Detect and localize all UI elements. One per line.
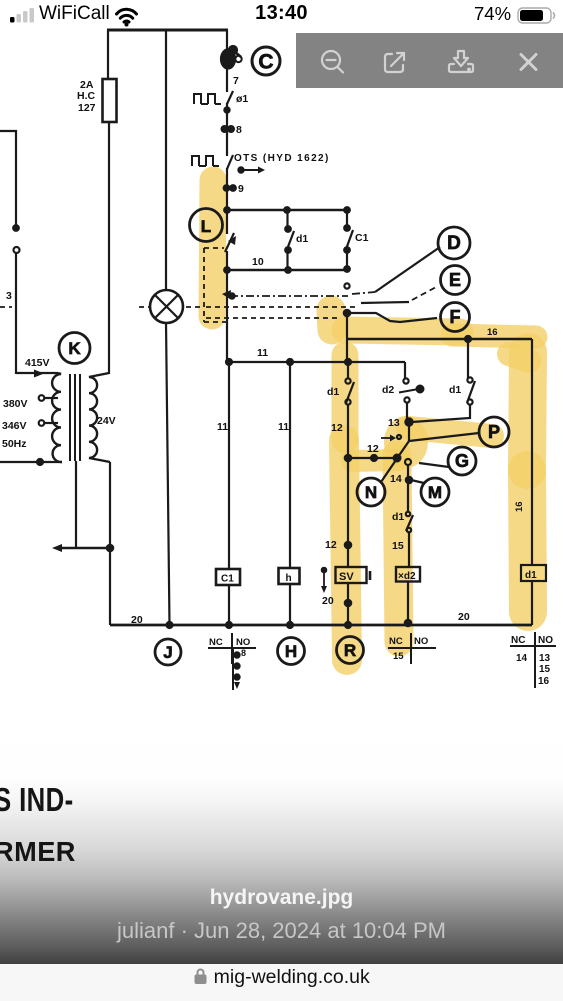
svg-text:NC: NC (389, 636, 403, 647)
svg-text:D: D (447, 233, 461, 254)
svg-text:20: 20 (322, 595, 334, 607)
svg-text:ø1: ø1 (236, 93, 248, 105)
svg-text:8: 8 (236, 124, 242, 136)
svg-text:8: 8 (241, 648, 246, 658)
svg-text:G: G (455, 451, 469, 471)
svg-text:F: F (450, 307, 461, 327)
svg-text:P: P (488, 422, 500, 442)
svg-text:d1: d1 (392, 511, 404, 523)
svg-text:H: H (285, 642, 297, 661)
svg-text:C1: C1 (221, 574, 234, 585)
svg-text:50Hz: 50Hz (2, 438, 27, 450)
svg-text:3: 3 (6, 290, 12, 302)
svg-text:12: 12 (331, 422, 343, 434)
svg-text:H.C: H.C (77, 90, 96, 102)
svg-text:15: 15 (392, 540, 404, 552)
svg-text:20: 20 (458, 611, 470, 623)
svg-text:NO: NO (538, 635, 553, 646)
svg-text:13: 13 (388, 417, 400, 429)
svg-text:415V: 415V (25, 357, 50, 369)
svg-text:12: 12 (367, 443, 379, 455)
svg-text:20: 20 (131, 614, 143, 626)
svg-text:11: 11 (278, 421, 289, 433)
svg-text:C: C (258, 51, 273, 74)
svg-text:7: 7 (233, 75, 239, 87)
svg-text:C1: C1 (355, 232, 369, 244)
svg-text:J: J (163, 643, 172, 662)
svg-text:NO: NO (414, 636, 428, 647)
svg-text:24V: 24V (97, 415, 116, 427)
svg-text:N: N (365, 483, 377, 502)
svg-text:L: L (201, 217, 211, 236)
svg-text:E: E (449, 270, 461, 290)
svg-text:R: R (344, 641, 356, 660)
svg-text:9: 9 (238, 183, 244, 195)
svg-text:d1: d1 (327, 386, 339, 398)
svg-text:OTS (HYD 1622): OTS (HYD 1622) (234, 153, 330, 164)
svg-text:×d2: ×d2 (398, 571, 416, 582)
svg-text:NC: NC (511, 635, 525, 646)
svg-text:SV: SV (339, 571, 354, 583)
svg-text:NO: NO (236, 637, 250, 648)
svg-text:14: 14 (390, 473, 402, 485)
svg-text:127: 127 (78, 102, 96, 114)
svg-text:16: 16 (538, 676, 550, 687)
svg-text:d1: d1 (525, 570, 537, 581)
svg-text:11: 11 (257, 347, 268, 359)
svg-text:d1: d1 (449, 384, 461, 396)
svg-text:d1: d1 (296, 233, 308, 245)
svg-text:16: 16 (514, 501, 525, 512)
svg-text:346V: 346V (2, 420, 27, 432)
svg-text:16: 16 (487, 327, 498, 338)
svg-text:13: 13 (539, 653, 551, 664)
svg-text:10: 10 (252, 256, 264, 268)
svg-text:K: K (68, 339, 81, 358)
svg-text:15: 15 (539, 664, 551, 675)
svg-text:h: h (286, 573, 292, 584)
svg-text:380V: 380V (3, 398, 28, 410)
svg-text:NC: NC (209, 637, 223, 648)
svg-text:d2: d2 (382, 384, 394, 396)
svg-text:15: 15 (393, 651, 404, 662)
svg-text:12: 12 (325, 539, 337, 551)
svg-text:11: 11 (217, 421, 228, 433)
svg-text:M: M (428, 483, 442, 502)
svg-text:14: 14 (516, 653, 528, 664)
